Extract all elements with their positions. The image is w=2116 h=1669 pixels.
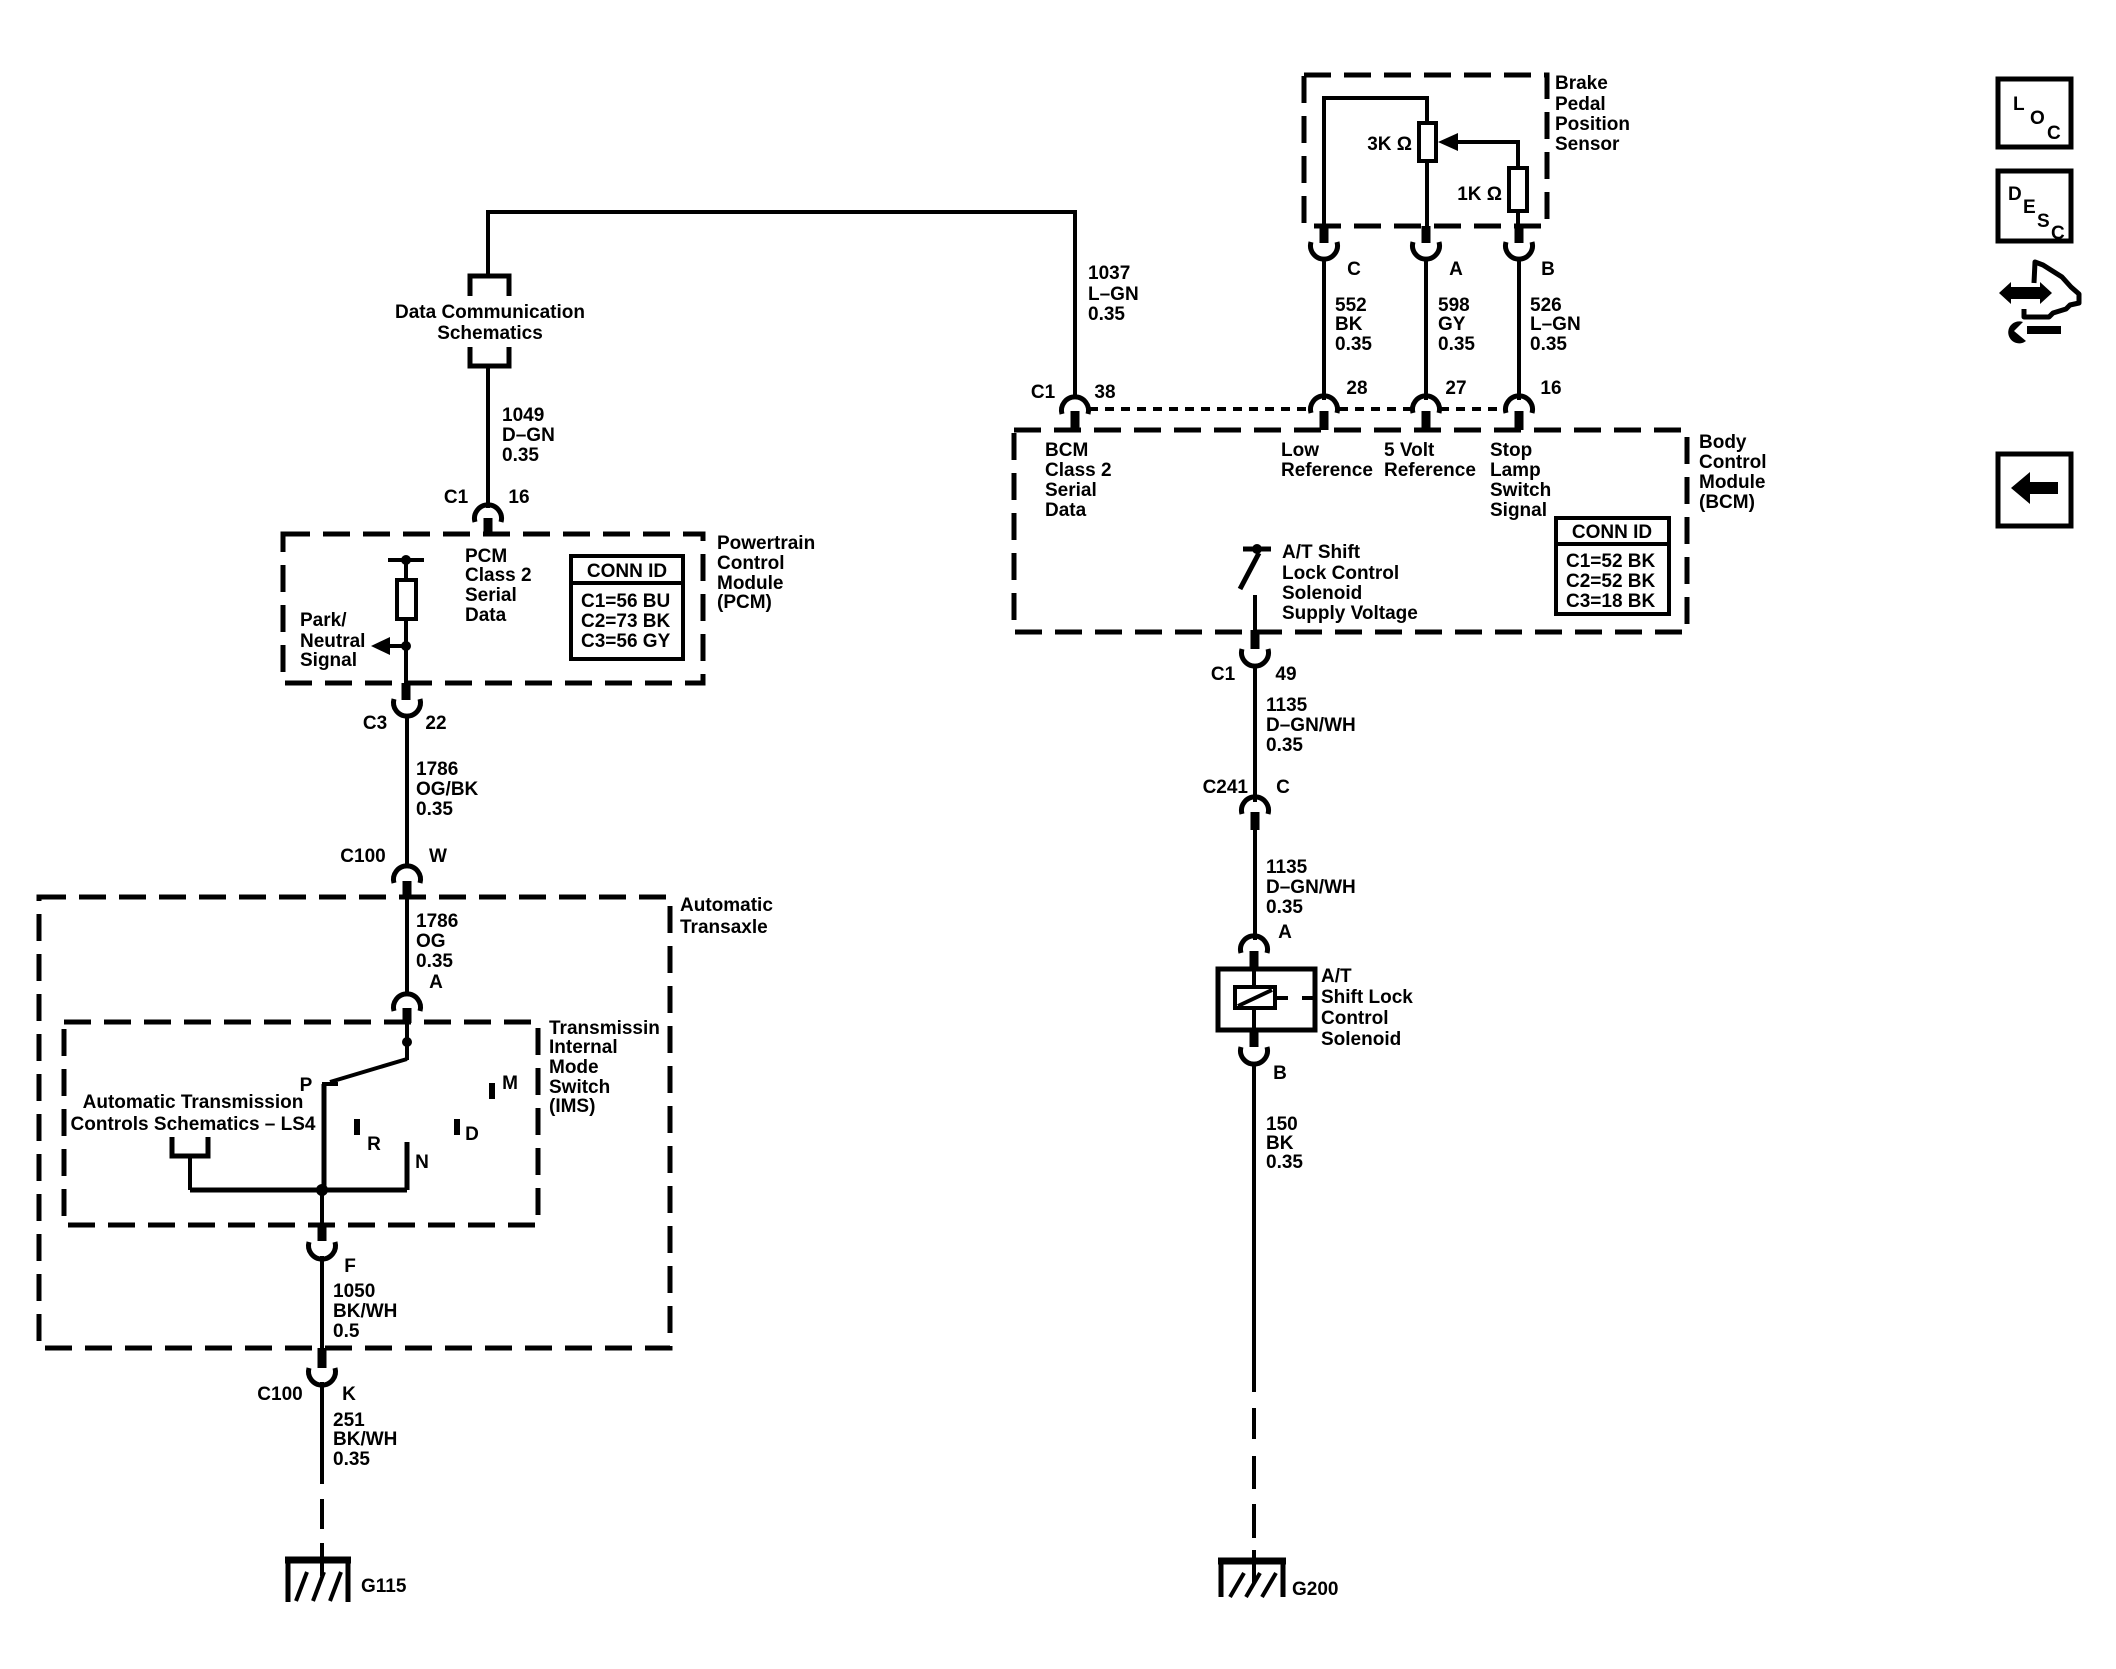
svg-text:E: E <box>2023 197 2036 218</box>
svg-text:Low: Low <box>1281 440 1319 461</box>
sensor connector pin C <box>1320 226 1329 243</box>
svg-text:0.35: 0.35 <box>1438 334 1475 355</box>
svg-text:D: D <box>465 1124 479 1145</box>
svg-text:0.35: 0.35 <box>416 951 453 972</box>
BCM connector pin 28 <box>1311 396 1338 413</box>
svg-text:Data: Data <box>465 605 507 626</box>
wire: drop from top run to Data Communication Schematics symbol <box>486 210 490 274</box>
svg-text:(BCM): (BCM) <box>1699 492 1755 513</box>
wire: switch to BCM pin 49 <box>1253 595 1257 631</box>
wire: circuit 1049 down to PCM connector <box>486 366 490 508</box>
svg-text:F: F <box>344 1256 356 1277</box>
potentiometer wiper arrow <box>1457 142 1518 170</box>
svg-text:BK: BK <box>1266 1133 1294 1154</box>
svg-text:Powertrain: Powertrain <box>717 533 815 554</box>
wire: serial data top horizontal run <box>488 210 1075 214</box>
svg-text:Switch: Switch <box>1490 480 1551 501</box>
svg-text:5 Volt: 5 Volt <box>1384 440 1435 461</box>
svg-text:C1: C1 <box>1031 382 1056 403</box>
svg-text:Neutral: Neutral <box>300 631 365 652</box>
svg-text:A: A <box>1449 259 1463 280</box>
svg-text:K: K <box>342 1384 356 1405</box>
svg-text:N: N <box>415 1152 429 1173</box>
svg-text:1786: 1786 <box>416 911 458 932</box>
icon: back arrow button <box>1998 454 2071 526</box>
svg-text:0.35: 0.35 <box>1266 735 1303 756</box>
wire: bracket to bus <box>188 1156 192 1190</box>
svg-text:Reference: Reference <box>1384 460 1476 481</box>
svg-text:Mode: Mode <box>549 1057 599 1078</box>
svg-text:28: 28 <box>1346 378 1367 399</box>
svg-text:BK/WH: BK/WH <box>333 1429 397 1450</box>
svg-text:0.35: 0.35 <box>1335 334 1372 355</box>
svg-text:C: C <box>2047 123 2061 144</box>
svg-text:Supply Voltage: Supply Voltage <box>1282 603 1418 624</box>
svg-text:C3=18 BK: C3=18 BK <box>1566 591 1656 612</box>
svg-text:598: 598 <box>1438 295 1470 316</box>
svg-text:C241: C241 <box>1203 777 1249 798</box>
wire: circuit 1786 OG/BK <box>405 714 409 868</box>
svg-text:L–GN: L–GN <box>1088 284 1139 305</box>
wire: circuit 1050 BK/WH <box>320 1256 324 1349</box>
svg-text:Lamp: Lamp <box>1490 460 1541 481</box>
svg-text:Stop: Stop <box>1490 440 1532 461</box>
svg-text:C: C <box>1347 259 1361 280</box>
svg-text:C2=73 BK: C2=73 BK <box>581 611 671 632</box>
IMS D contact <box>454 1119 460 1135</box>
svg-text:A: A <box>429 972 443 993</box>
wire: IMS out to pin F <box>320 1190 324 1230</box>
svg-text:Serial: Serial <box>465 585 517 606</box>
svg-text:O: O <box>2030 108 2045 129</box>
solenoid coil <box>1235 987 1275 1008</box>
Transmission Internal Mode Switch dashed box <box>64 1022 538 1225</box>
ground G200 <box>1218 1558 1286 1565</box>
ground G115 <box>285 1557 351 1564</box>
off-page connector bracket (Automatic Transmission Controls Schematics) <box>172 1137 208 1156</box>
icon: DESC button <box>1998 171 2071 241</box>
svg-text:16: 16 <box>508 487 529 508</box>
svg-text:Transmissin: Transmissin <box>549 1018 660 1039</box>
svg-text:Serial: Serial <box>1045 480 1097 501</box>
junction dot IMS common <box>402 1037 412 1047</box>
svg-text:OG: OG <box>416 931 446 952</box>
svg-text:D–GN: D–GN <box>502 425 555 446</box>
svg-text:Solenoid: Solenoid <box>1282 583 1362 604</box>
svg-text:Position: Position <box>1555 114 1630 135</box>
svg-text:0.35: 0.35 <box>1088 304 1125 325</box>
connector pin F <box>318 1226 327 1241</box>
svg-text:Controls Schematics – LS4: Controls Schematics – LS4 <box>71 1114 316 1135</box>
svg-text:BK: BK <box>1335 314 1363 335</box>
svg-text:C100: C100 <box>257 1384 302 1405</box>
svg-text:38: 38 <box>1094 382 1115 403</box>
svg-text:A: A <box>1278 922 1292 943</box>
svg-text:0.35: 0.35 <box>502 445 539 466</box>
svg-text:C3=56 GY: C3=56 GY <box>581 631 671 652</box>
svg-text:1135: 1135 <box>1266 857 1308 878</box>
junction dot on switch bar <box>1252 544 1262 554</box>
svg-text:M: M <box>502 1073 518 1094</box>
svg-text:G200: G200 <box>1292 1579 1338 1600</box>
svg-text:Reference: Reference <box>1281 460 1373 481</box>
svg-text:C100: C100 <box>340 846 385 867</box>
PCM module dashed box <box>283 534 703 683</box>
dashed wire segment to ground G115 <box>320 1499 324 1529</box>
IMS N contact <box>405 1142 410 1190</box>
svg-text:A/T Shift: A/T Shift <box>1282 542 1361 563</box>
svg-text:(PCM): (PCM) <box>717 592 772 613</box>
svg-text:Class 2: Class 2 <box>1045 460 1112 481</box>
svg-text:BK/WH: BK/WH <box>333 1301 397 1322</box>
junction dot for Park/Neutral signal tap <box>401 641 411 651</box>
wire: circuit 1135 upper <box>1253 664 1257 802</box>
connector C1 pin 49 <box>1251 630 1260 649</box>
svg-text:(IMS): (IMS) <box>549 1096 595 1117</box>
svg-text:C1=52 BK: C1=52 BK <box>1566 551 1656 572</box>
svg-text:251: 251 <box>333 1410 365 1431</box>
potentiometer 3K ohm <box>1419 123 1436 161</box>
wire: circuit 1037 L-GN down to BCM <box>1073 210 1077 399</box>
svg-text:L–GN: L–GN <box>1530 314 1581 335</box>
svg-text:Class 2: Class 2 <box>465 565 532 586</box>
svg-text:Park/: Park/ <box>300 610 347 631</box>
icon: vehicle outline <box>2024 262 2079 317</box>
off-page connector top bracket (Data Communication Schematics) <box>470 276 509 296</box>
svg-text:G115: G115 <box>361 1576 407 1597</box>
svg-text:0.35: 0.35 <box>333 1449 370 1470</box>
connector pin A at solenoid <box>1241 936 1268 953</box>
junction dot on bus at P leg <box>316 1184 328 1196</box>
svg-text:Signal: Signal <box>300 650 357 671</box>
svg-text:B: B <box>1273 1063 1287 1084</box>
svg-text:Schematics: Schematics <box>437 323 543 344</box>
svg-text:1049: 1049 <box>502 405 544 426</box>
svg-text:0.35: 0.35 <box>1266 897 1303 918</box>
dotted connector plane line across BCM pins <box>1089 407 1311 411</box>
svg-text:Shift Lock: Shift Lock <box>1321 987 1413 1008</box>
wire: circuit 251 BK/WH <box>320 1382 324 1484</box>
icon: LOC button <box>1998 79 2071 147</box>
svg-text:Module: Module <box>717 573 784 594</box>
svg-text:CONN ID: CONN ID <box>1572 522 1652 543</box>
svg-text:Brake: Brake <box>1555 73 1608 94</box>
connector C100 pin K <box>318 1348 327 1368</box>
CONN ID table (BCM) <box>1556 518 1669 614</box>
wire: 3K bottom to pin A <box>1425 161 1429 226</box>
resistor 1K ohm <box>1509 168 1527 211</box>
wire into IMS <box>405 1022 409 1060</box>
svg-text:Sensor: Sensor <box>1555 134 1620 155</box>
sensor internal wiring C leg and top run <box>1324 98 1427 226</box>
resistor: PCM internal pull-up <box>397 580 416 619</box>
wire: resistor to C3 pin <box>404 619 408 684</box>
wire: circuit 552 BK <box>1322 257 1326 400</box>
svg-text:W: W <box>429 846 447 867</box>
svg-text:Solenoid: Solenoid <box>1321 1029 1401 1050</box>
svg-text:Automatic Transmission: Automatic Transmission <box>83 1092 304 1113</box>
BCM connector pin 27 <box>1413 396 1440 413</box>
svg-text:1050: 1050 <box>333 1281 375 1302</box>
CONN ID table (PCM) <box>571 556 683 659</box>
sensor connector pin B <box>1515 226 1524 243</box>
svg-text:526: 526 <box>1530 295 1562 316</box>
wire: circuit 598 GY <box>1424 257 1428 400</box>
svg-text:22: 22 <box>425 713 446 734</box>
A/T Shift Lock Control Solenoid box <box>1218 969 1315 1030</box>
svg-text:150: 150 <box>1266 1114 1298 1135</box>
svg-text:1135: 1135 <box>1266 695 1308 716</box>
svg-text:Pedal: Pedal <box>1555 94 1606 115</box>
svg-text:Signal: Signal <box>1490 500 1547 521</box>
svg-text:Module: Module <box>1699 472 1766 493</box>
svg-text:A/T: A/T <box>1321 966 1352 987</box>
svg-text:C1: C1 <box>1211 664 1236 685</box>
svg-text:1786: 1786 <box>416 759 458 780</box>
svg-text:27: 27 <box>1445 378 1466 399</box>
svg-text:0.35: 0.35 <box>1530 334 1567 355</box>
IMS bottom bus wire <box>190 1188 407 1193</box>
connector C3 pin 22 below PCM <box>402 683 411 700</box>
BCM connector pin 16 <box>1506 396 1533 413</box>
wire: circuit 526 L-GN <box>1517 257 1521 400</box>
svg-text:C: C <box>2051 223 2065 244</box>
svg-text:16: 16 <box>1540 378 1561 399</box>
IMS R contact <box>354 1119 360 1135</box>
icon: diagnostic double arrow <box>1999 282 2052 304</box>
svg-text:552: 552 <box>1335 295 1367 316</box>
svg-text:49: 49 <box>1275 664 1296 685</box>
svg-text:R: R <box>367 1134 381 1155</box>
svg-text:BCM: BCM <box>1045 440 1088 461</box>
svg-text:C1: C1 <box>444 487 469 508</box>
IMS M contact <box>489 1083 495 1099</box>
svg-text:3K Ω: 3K Ω <box>1367 134 1412 155</box>
Brake Pedal Position Sensor dashed box <box>1304 75 1547 226</box>
svg-text:PCM: PCM <box>465 546 507 567</box>
junction dot on termination bar <box>401 555 411 565</box>
dashed wire segments to ground G200 <box>1252 1408 1256 1439</box>
svg-text:C1=56 BU: C1=56 BU <box>581 591 670 612</box>
svg-text:B: B <box>1541 259 1555 280</box>
svg-text:Control: Control <box>1699 452 1767 473</box>
wire: circuit 150 BK <box>1252 1062 1256 1392</box>
IMS switch blade to P contact <box>330 1059 407 1082</box>
PCM internal termination bar <box>388 558 424 562</box>
icon: wrench <box>2027 326 2061 334</box>
svg-text:OG/BK: OG/BK <box>416 779 479 800</box>
connector pin A at IMS <box>394 994 421 1011</box>
svg-text:0.35: 0.35 <box>416 799 453 820</box>
svg-text:0.5: 0.5 <box>333 1321 360 1342</box>
connector pin B at solenoid <box>1250 1030 1259 1047</box>
svg-text:D–GN/WH: D–GN/WH <box>1266 715 1356 736</box>
svg-text:D–GN/WH: D–GN/WH <box>1266 877 1356 898</box>
svg-text:Data Communication: Data Communication <box>395 302 585 323</box>
sensor connector pin A <box>1422 226 1431 243</box>
Automatic Transaxle dashed box <box>39 897 670 1348</box>
svg-text:Data: Data <box>1045 500 1087 521</box>
Park/Neutral signal arrow <box>388 644 406 648</box>
BCM internal switch bar <box>1243 547 1271 552</box>
svg-text:Control: Control <box>717 553 785 574</box>
svg-text:1037: 1037 <box>1088 263 1130 284</box>
wire: circuit 1135 lower <box>1253 828 1257 940</box>
svg-text:C3: C3 <box>363 713 387 734</box>
svg-text:0.35: 0.35 <box>1266 1152 1303 1173</box>
wire: circuit 1786 OG inside transaxle <box>405 897 409 996</box>
svg-text:1K Ω: 1K Ω <box>1457 184 1502 205</box>
svg-text:D: D <box>2008 184 2022 205</box>
Body Control Module dashed box <box>1014 430 1687 632</box>
BCM internal switch blade <box>1240 553 1259 589</box>
svg-text:C2=52 BK: C2=52 BK <box>1566 571 1656 592</box>
off-page connector bottom bracket (Data Communication Schematics) <box>470 347 509 366</box>
svg-text:Internal: Internal <box>549 1037 618 1058</box>
svg-text:Transaxle: Transaxle <box>680 917 768 938</box>
svg-text:Automatic: Automatic <box>680 895 773 916</box>
svg-text:Control: Control <box>1321 1008 1389 1029</box>
svg-text:C: C <box>1276 777 1290 798</box>
svg-text:Switch: Switch <box>549 1077 610 1098</box>
wire from bar to resistor <box>404 560 408 580</box>
svg-text:Body: Body <box>1699 432 1747 453</box>
svg-text:GY: GY <box>1438 314 1466 335</box>
svg-text:L: L <box>2013 94 2025 115</box>
svg-text:Lock Control: Lock Control <box>1282 563 1399 584</box>
svg-text:S: S <box>2037 211 2050 232</box>
svg-text:CONN ID: CONN ID <box>587 561 667 582</box>
wire: 1K bottom to pin B <box>1516 211 1520 226</box>
